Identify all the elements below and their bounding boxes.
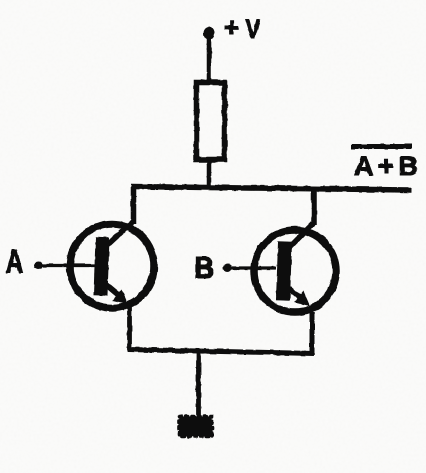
transistor Q2 (254, 222, 336, 312)
wire Q1 emitter down to emitter rail (127, 306, 132, 352)
wire resistor R1 to output bus (207, 160, 212, 188)
wire input A to Q1 base (38, 264, 95, 267)
ground (180, 417, 213, 437)
wire input B to Q2 base (226, 266, 276, 269)
wire +V dot to resistor R1 (207, 36, 212, 82)
node input A terminal dot (34, 262, 43, 270)
wire Q2 collector to output bus (311, 188, 317, 225)
wire emitter rail (128, 350, 314, 354)
wire Q2 emitter down to emitter rail (310, 312, 315, 355)
svg-text:+: + (224, 12, 239, 42)
resistor R1 (197, 83, 225, 160)
wire emitter rail to ground (196, 350, 201, 417)
transistor Q1 (70, 221, 154, 308)
svg-text:A+B: A+B (354, 151, 423, 181)
svg-text:B: B (195, 251, 215, 285)
svg-text:V: V (246, 15, 261, 45)
node input B terminal dot (223, 264, 232, 272)
overbar of output label (351, 144, 412, 149)
node +V supply terminal dot (204, 27, 215, 40)
label +V (224, 12, 261, 45)
wire output bus (collector rail to output) (131, 187, 411, 191)
svg-text:A: A (6, 245, 24, 281)
wire Q1 collector to output bus (131, 186, 137, 224)
